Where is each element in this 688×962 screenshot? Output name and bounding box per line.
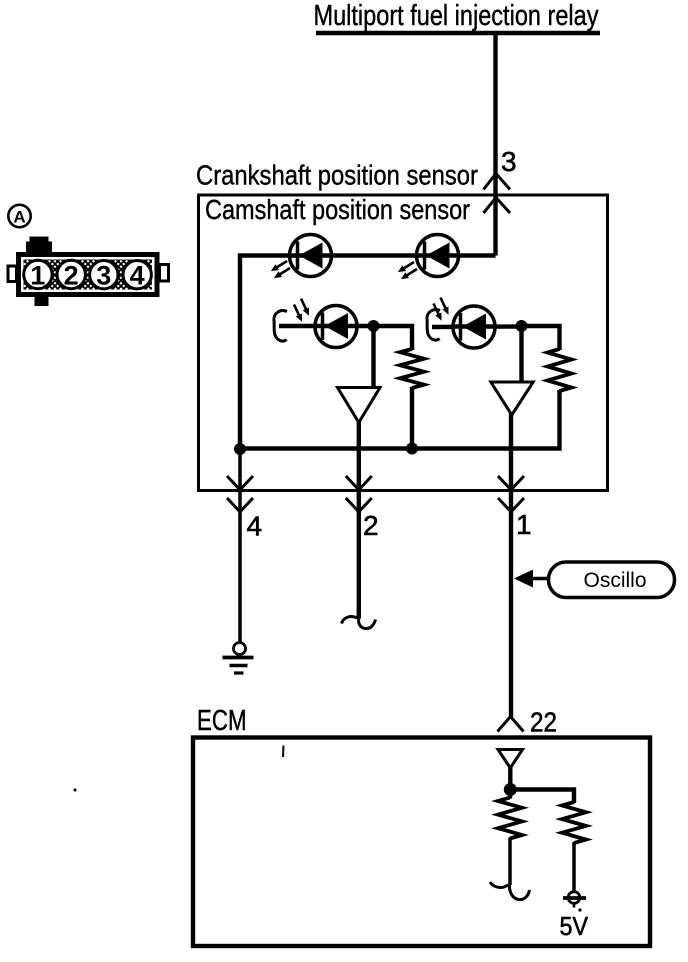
svg-text:Crankshaft position sensor: Crankshaft position sensor — [196, 160, 478, 191]
wire: D3 row — [279, 324, 374, 328]
amplifier U2 — [491, 382, 533, 415]
LED D2 (emitter, top-right) — [417, 235, 459, 277]
connector chevron pair terminal 1 — [498, 476, 524, 490]
svg-text:Camshaft position sensor: Camshaft position sensor — [205, 194, 470, 225]
svg-text:2: 2 — [363, 510, 379, 541]
top latch tab — [30, 237, 49, 244]
wire: R2 to ground bus — [240, 390, 560, 449]
junction dot: left vertical on bus — [234, 443, 246, 455]
svg-text:3: 3 — [96, 261, 111, 291]
resistor R3 — [498, 798, 522, 839]
wire: R4 to 5V terminal — [572, 842, 576, 892]
scan speck near 5V — [578, 908, 581, 911]
5V supply terminal — [563, 892, 586, 908]
svg-text:ECM: ECM — [197, 705, 247, 737]
svg-text:Oscillo: Oscillo — [584, 568, 647, 592]
connector chevron pair at pin 3 — [484, 174, 511, 190]
LED D1 (emitter, top-left) — [290, 235, 332, 277]
wire: node down to amplifier U2 — [519, 326, 523, 384]
oscillo tap stub wire — [532, 577, 550, 581]
input buffer triangle at pin 22 — [498, 750, 523, 769]
shell — [19, 255, 158, 295]
photodiode D3 (bottom-left) — [315, 306, 357, 348]
pin 1 cavity — [24, 260, 52, 288]
hatch fill — [24, 260, 153, 290]
ECM box outline — [193, 738, 650, 947]
amplifier U1 — [338, 388, 381, 423]
continuation squiggle below R3 — [490, 882, 530, 900]
LED D1 light arrows — [269, 258, 292, 281]
wire: node to R1 — [374, 326, 413, 350]
wire: LED supply row (pin3 down-left to LEDs) — [240, 256, 496, 450]
wire: node down to amplifier U1 — [371, 326, 375, 390]
wire: D4 row — [432, 324, 522, 329]
right ear — [160, 265, 169, 282]
svg-text:4: 4 — [130, 261, 145, 291]
connector chevron pair terminal 4 — [227, 476, 253, 490]
relay bus bar (underline) — [316, 31, 600, 36]
wire: node to R2 — [522, 326, 560, 350]
oscillo tap arrow — [514, 570, 533, 588]
junction node D4/R2/U2 — [516, 320, 528, 332]
svg-text:1: 1 — [30, 260, 45, 290]
photodiode D4 light arrows — [430, 296, 451, 322]
svg-text:5V: 5V — [560, 911, 589, 941]
svg-text:1: 1 — [516, 509, 532, 540]
photodiode D3 light arrows — [291, 297, 312, 323]
wire: terminal 4 to ground — [238, 449, 242, 643]
resistor R1 — [400, 349, 424, 388]
pin 3 cavity — [90, 261, 118, 289]
wire: node to R3 — [508, 790, 512, 799]
wire: node to R4 branch — [510, 790, 574, 804]
svg-text:2: 2 — [64, 260, 79, 290]
wire: relay to sensor pin 3 — [493, 34, 497, 256]
left ear — [8, 266, 17, 282]
wire: U1 output (terminal 2) — [357, 421, 361, 619]
photodiode D4 (bottom-right) — [453, 306, 495, 348]
continuation squiggle terminal 2 wire end — [342, 617, 376, 629]
scan speck near ECM top — [282, 746, 285, 758]
junction dot: R1 on bus — [406, 443, 418, 455]
LED D2 light arrows — [396, 259, 419, 282]
scan speck left margin — [74, 789, 77, 792]
connector A body — [8, 237, 169, 307]
svg-text:3: 3 — [501, 146, 517, 177]
connector A identifier — [8, 205, 30, 227]
wire: U2 output (terminal 1) — [509, 414, 513, 718]
continuation squiggle at photodiode D3 input — [274, 311, 287, 342]
sensor box outline — [199, 195, 608, 491]
connector chevron at ECM pin 22 — [498, 717, 524, 732]
ground symbol — [223, 643, 254, 674]
pin 4 cavity — [123, 261, 151, 289]
junction node D3/R1/U1 — [368, 320, 380, 332]
wire: R3 down to squiggle — [508, 838, 512, 886]
svg-text:A: A — [13, 208, 25, 227]
resistor R4 — [562, 802, 586, 843]
junction node pin22/R3/R4 — [504, 783, 517, 796]
oscillo pill — [549, 562, 675, 598]
svg-text:Multiport fuel injection relay: Multiport fuel injection relay — [314, 0, 599, 32]
svg-text:22: 22 — [530, 707, 557, 738]
resistor R2 — [548, 349, 572, 391]
svg-text:4: 4 — [247, 511, 263, 542]
continuation squiggle at photodiode D4 input — [427, 310, 440, 341]
bottom tab — [35, 296, 49, 306]
pin 2 cavity — [57, 260, 85, 288]
wire: triangle to node — [508, 766, 512, 790]
connector chevron pair terminal 2 — [346, 476, 372, 490]
wire: R1 to ground bus — [410, 387, 414, 449]
